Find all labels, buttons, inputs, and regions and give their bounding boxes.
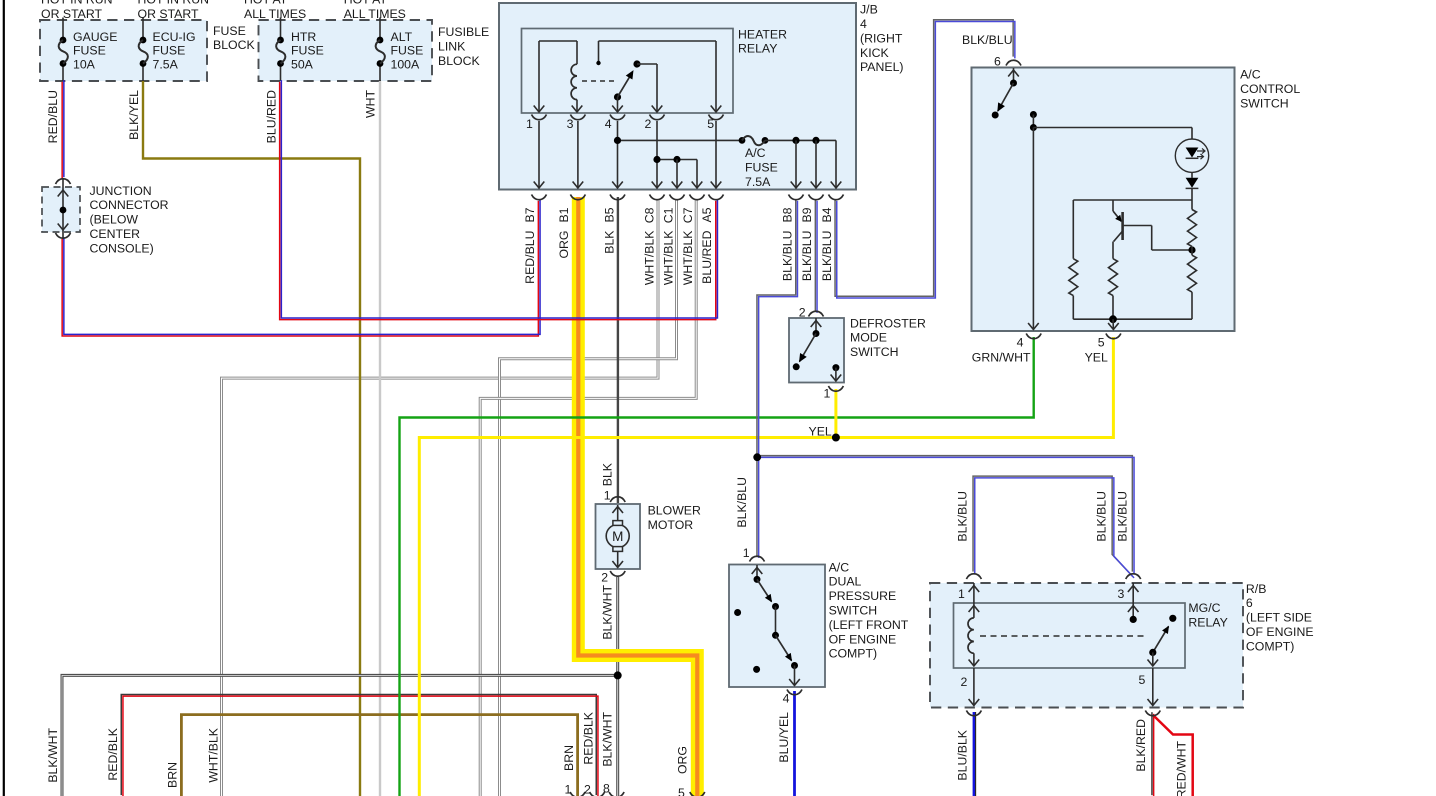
svg-text:HOT AT: HOT AT [344,0,388,7]
svg-text:50A: 50A [291,57,314,71]
svg-text:BLK: BLK [603,230,617,254]
svg-text:1: 1 [565,782,572,796]
svg-text:SWITCH: SWITCH [829,604,878,618]
svg-text:WHT/BLK: WHT/BLK [661,230,675,285]
svg-text:WHT/BLK: WHT/BLK [643,230,657,285]
svg-text:BLK/WHT: BLK/WHT [46,728,60,783]
svg-text:5: 5 [707,117,714,131]
svg-text:A/C: A/C [829,560,850,574]
svg-text:M: M [612,529,623,544]
svg-text:1: 1 [958,587,965,601]
svg-text:HOT AT: HOT AT [244,0,288,7]
svg-text:BLK/RED: BLK/RED [1134,719,1148,772]
svg-text:ALT: ALT [391,30,413,44]
svg-text:PANEL): PANEL) [860,60,904,74]
svg-text:MODE: MODE [850,331,887,345]
svg-text:ORG: ORG [676,746,690,774]
svg-text:MG/C: MG/C [1188,601,1220,615]
svg-text:LINK: LINK [438,40,466,54]
svg-text:HTR: HTR [291,30,316,44]
svg-text:HEATER: HEATER [738,27,787,41]
svg-text:R/B: R/B [1246,582,1267,596]
svg-text:5: 5 [1098,336,1105,350]
svg-text:BLK: BLK [601,462,615,486]
svg-text:(RIGHT: (RIGHT [860,31,903,45]
svg-text:1: 1 [604,489,611,503]
svg-text:BLK/BLU: BLK/BLU [735,477,749,528]
svg-text:7.5A: 7.5A [153,57,179,71]
svg-text:RELAY: RELAY [1188,616,1227,630]
svg-text:BLK/BLU: BLK/BLU [800,231,814,282]
svg-text:RED/BLU: RED/BLU [523,231,537,284]
svg-text:ALL TIMES: ALL TIMES [244,7,306,21]
svg-text:BLOWER: BLOWER [648,504,701,518]
svg-text:FUSIBLE: FUSIBLE [438,25,489,39]
svg-text:2: 2 [645,117,652,131]
svg-text:OF ENGINE: OF ENGINE [1246,625,1314,639]
svg-text:4: 4 [860,17,867,31]
svg-text:A/C: A/C [1240,68,1261,82]
svg-text:B4: B4 [820,207,834,222]
svg-text:C8: C8 [643,207,657,223]
svg-text:CONTROL: CONTROL [1240,82,1300,96]
svg-text:SWITCH: SWITCH [1240,96,1289,110]
svg-text:YEL: YEL [809,425,832,439]
svg-text:BLU/RED: BLU/RED [700,230,714,283]
svg-text:YEL: YEL [1085,351,1108,365]
svg-text:BLU/BLK: BLU/BLK [956,729,970,780]
svg-text:2: 2 [601,570,608,584]
svg-text:(LEFT FRONT: (LEFT FRONT [829,618,909,632]
svg-text:6: 6 [994,54,1001,68]
svg-text:CENTER: CENTER [90,227,141,241]
svg-text:6: 6 [1246,596,1253,610]
svg-text:5: 5 [678,786,685,796]
svg-text:WHT/BLK: WHT/BLK [681,230,695,285]
svg-text:(BELOW: (BELOW [90,213,139,227]
svg-text:A5: A5 [700,207,714,222]
svg-text:DEFROSTER: DEFROSTER [850,316,926,330]
svg-text:HOT IN RUN: HOT IN RUN [138,0,210,7]
svg-text:1: 1 [526,117,533,131]
svg-text:CONNECTOR: CONNECTOR [90,198,169,212]
svg-text:BLU/YEL: BLU/YEL [777,712,791,763]
svg-text:KICK: KICK [860,46,889,60]
svg-text:OR START: OR START [138,7,200,21]
svg-text:B5: B5 [603,207,617,222]
svg-text:OF ENGINE: OF ENGINE [829,632,897,646]
svg-text:GAUGE: GAUGE [73,30,117,44]
svg-text:C1: C1 [661,207,675,223]
svg-text:5: 5 [1139,673,1146,687]
svg-text:BRN: BRN [166,762,180,788]
svg-text:BLOCK: BLOCK [438,54,480,68]
svg-text:B1: B1 [557,207,571,222]
svg-text:MOTOR: MOTOR [648,518,694,532]
svg-text:ORG: ORG [557,231,571,259]
svg-text:CONSOLE): CONSOLE) [90,241,154,255]
svg-text:BLK/BLU: BLK/BLU [956,491,970,542]
svg-text:BLK/YEL: BLK/YEL [127,90,141,140]
svg-text:RED/BLK: RED/BLK [106,727,120,780]
svg-text:RED/BLU: RED/BLU [46,90,60,143]
svg-text:FUSE: FUSE [745,160,778,174]
svg-text:BLK/BLU: BLK/BLU [820,231,834,282]
svg-text:4: 4 [783,691,790,705]
svg-text:COMPT): COMPT) [1246,639,1295,653]
svg-text:BLK/BLU: BLK/BLU [1095,491,1109,542]
svg-text:FUSE: FUSE [73,44,106,58]
svg-text:1: 1 [743,546,750,560]
svg-text:OR START: OR START [41,7,103,21]
svg-text:J/B: J/B [860,3,878,17]
svg-text:SWITCH: SWITCH [850,345,899,359]
svg-text:C7: C7 [681,207,695,223]
svg-text:RED/WHT: RED/WHT [1175,741,1189,796]
svg-text:DUAL: DUAL [829,575,862,589]
svg-text:BLK/WHT: BLK/WHT [601,585,615,640]
svg-text:GRN/WHT: GRN/WHT [972,351,1031,365]
svg-text:COMPT): COMPT) [829,647,878,661]
svg-text:100A: 100A [391,57,421,71]
svg-text:FUSE: FUSE [291,44,324,58]
svg-text:10A: 10A [73,57,96,71]
svg-text:WHT/BLK: WHT/BLK [206,727,220,782]
svg-text:BLU/RED: BLU/RED [265,90,279,143]
svg-text:2: 2 [961,675,968,689]
svg-text:FUSE: FUSE [153,44,186,58]
svg-text:BLK/BLU: BLK/BLU [781,231,795,282]
svg-text:ECU-IG: ECU-IG [153,30,196,44]
svg-text:RED/BLK: RED/BLK [581,711,595,764]
svg-text:BLK/BLU: BLK/BLU [1116,491,1130,542]
svg-text:4: 4 [605,117,612,131]
svg-text:8: 8 [603,781,610,795]
svg-text:3: 3 [567,117,574,131]
svg-text:FUSE: FUSE [213,24,246,38]
svg-text:3: 3 [1118,587,1125,601]
svg-text:ALL TIMES: ALL TIMES [344,7,406,21]
svg-text:2: 2 [799,305,806,319]
svg-text:B9: B9 [800,207,814,222]
svg-text:BLK/WHT: BLK/WHT [601,712,615,767]
svg-text:BLOCK: BLOCK [213,38,255,52]
svg-text:JUNCTION: JUNCTION [90,184,152,198]
svg-text:RELAY: RELAY [738,42,777,56]
svg-text:1: 1 [824,387,831,401]
svg-text:B7: B7 [523,207,537,222]
svg-text:WHT: WHT [364,90,378,118]
svg-text:(LEFT SIDE: (LEFT SIDE [1246,611,1312,625]
svg-text:B8: B8 [781,207,795,222]
svg-text:7.5A: 7.5A [745,175,771,189]
svg-text:BLK/BLU: BLK/BLU [962,33,1013,47]
svg-text:A/C: A/C [745,146,766,160]
svg-text:4: 4 [1017,336,1024,350]
svg-text:2: 2 [584,782,591,796]
svg-text:BRN: BRN [562,745,576,771]
svg-text:FUSE: FUSE [391,44,424,58]
svg-text:PRESSURE: PRESSURE [829,589,897,603]
svg-text:HOT IN RUN: HOT IN RUN [41,0,113,7]
